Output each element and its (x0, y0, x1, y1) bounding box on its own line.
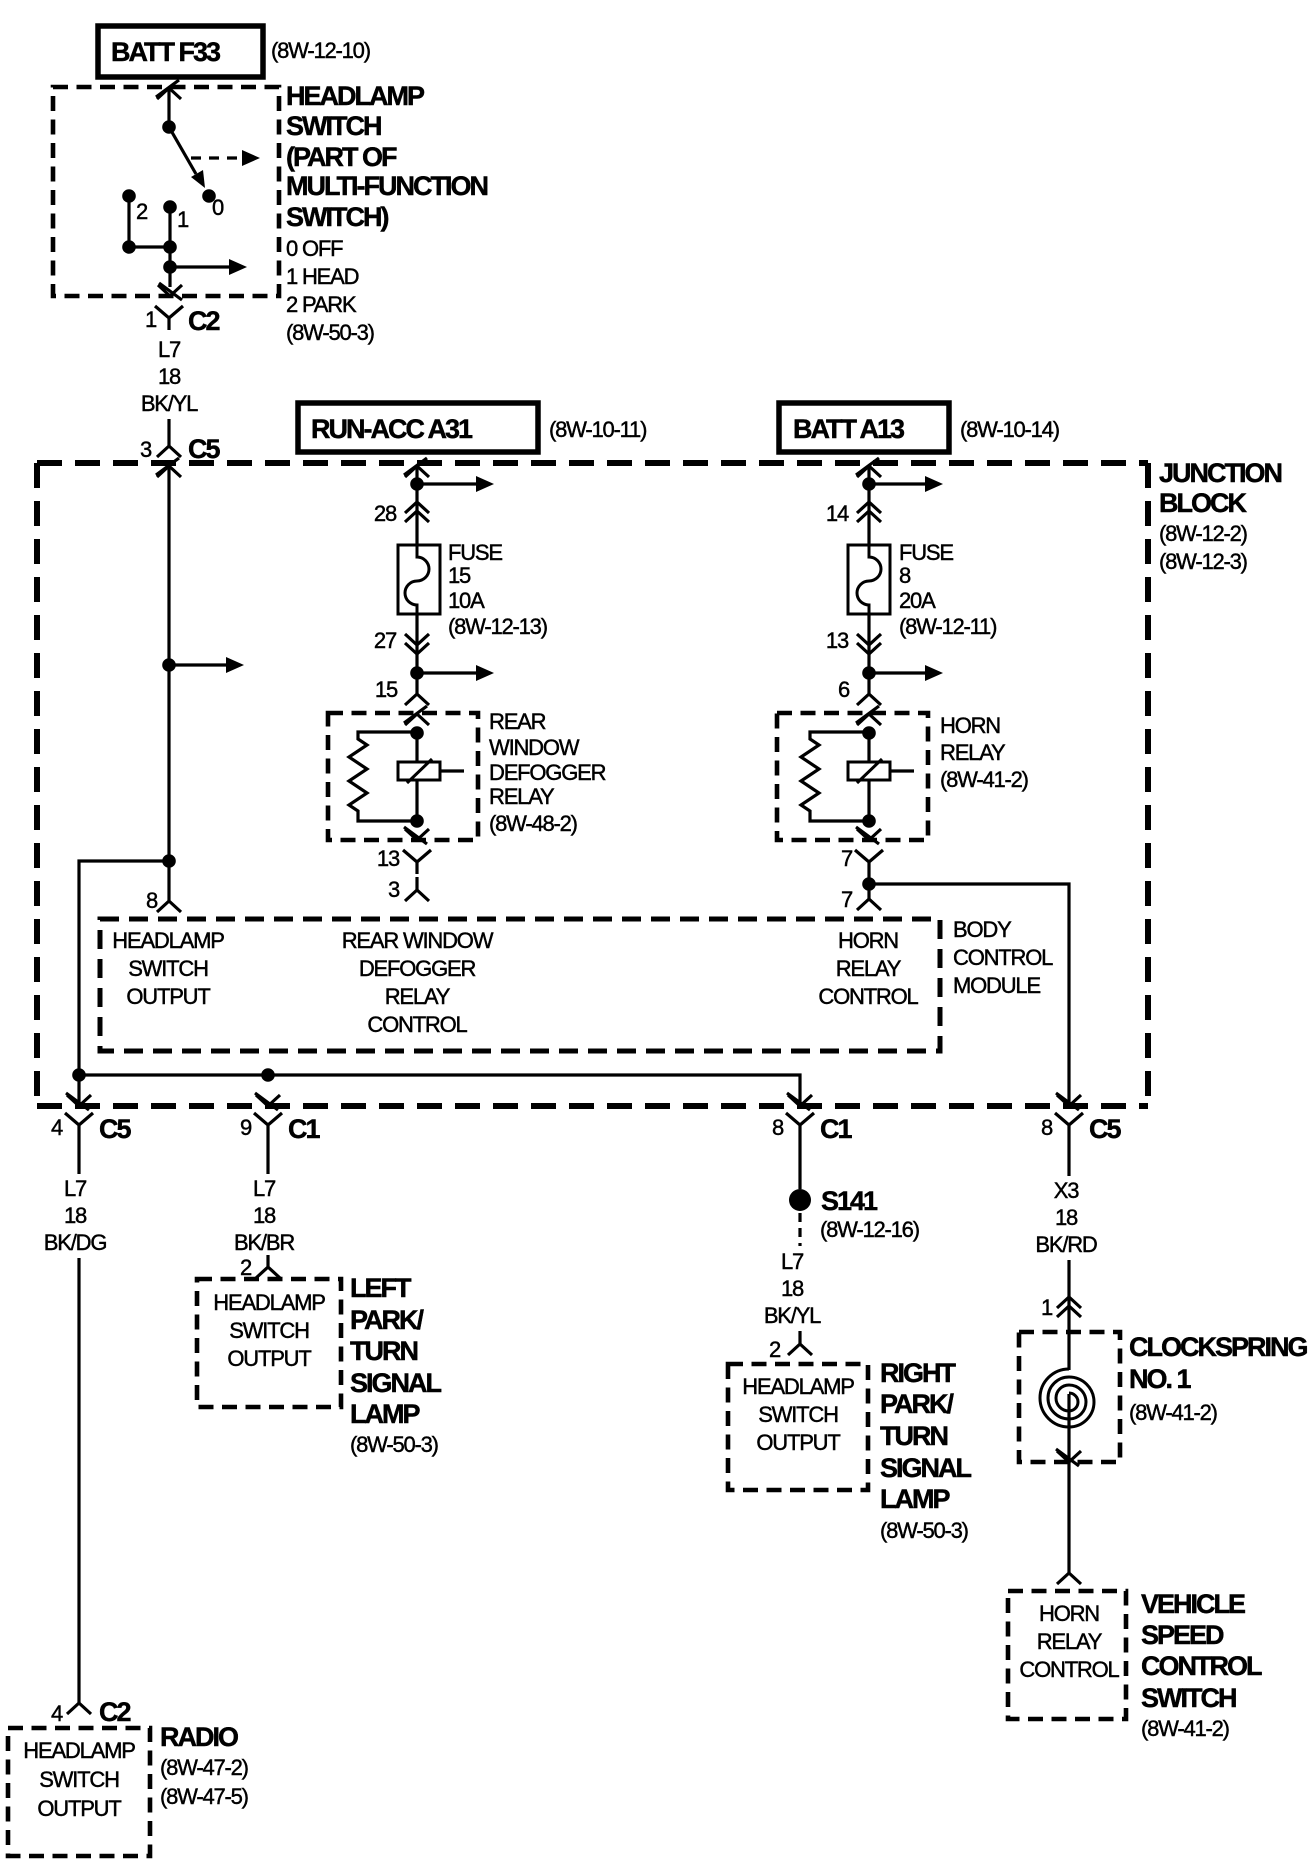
svg-text:(8W-41-2): (8W-41-2) (1141, 1716, 1229, 1741)
down arrow exit C1 pin 8 (787, 1093, 812, 1110)
svg-text:VEHICLE: VEHICLE (1141, 1589, 1245, 1619)
svg-text:SWITCH: SWITCH (1141, 1683, 1236, 1713)
svg-text:15: 15 (375, 677, 398, 702)
feed box RUN-ACC A31 (298, 403, 538, 452)
down arrow at switch box bottom (158, 283, 182, 300)
svg-text:C5: C5 (99, 1114, 131, 1144)
fuse 8 element (857, 545, 881, 614)
svg-text:X3: X3 (1054, 1178, 1079, 1203)
wire fuse to horn relay (867, 614, 870, 683)
up arrow entering horn relay (856, 706, 881, 725)
down arrow exit C5 pin 4 (66, 1093, 91, 1110)
wire to junction block (167, 419, 170, 434)
svg-text:RELAY: RELAY (940, 740, 1006, 765)
fuse 15 element (405, 545, 429, 614)
switch output wire (168, 247, 171, 287)
svg-text:SWITCH: SWITCH (128, 956, 208, 981)
svg-text:C5: C5 (188, 434, 220, 464)
up arrow headlamp feed entering block (156, 458, 181, 477)
svg-text:0 OFF: 0 OFF (286, 236, 343, 261)
svg-text:OUTPUT: OUTPUT (227, 1346, 311, 1371)
svg-text:8: 8 (146, 888, 158, 913)
wires through horn contact (867, 733, 870, 821)
wire contact 1 down (168, 207, 171, 247)
contact 2 (122, 189, 136, 203)
clockspring dashed box (1019, 1332, 1120, 1462)
svg-text:3: 3 (388, 877, 400, 902)
svg-text:FUSE: FUSE (899, 540, 953, 565)
svg-text:SPEED: SPEED (1141, 1620, 1224, 1650)
relay coil resistor (349, 732, 417, 821)
branch wire to C5 pin 8 (869, 884, 1069, 1106)
svg-text:1: 1 (145, 307, 157, 332)
double chevron down pin 13 (857, 634, 881, 654)
svg-text:SWITCH: SWITCH (229, 1318, 309, 1343)
svg-text:MULTI-FUNCTION: MULTI-FUNCTION (286, 171, 487, 201)
svg-text:BATT F33: BATT F33 (111, 37, 221, 67)
svg-text:20A: 20A (899, 588, 936, 613)
svg-text:CONTROL: CONTROL (1019, 1657, 1119, 1682)
double chevron down pin 27 (405, 634, 429, 654)
svg-text:REAR: REAR (489, 709, 546, 734)
svg-text:DEFOGGER: DEFOGGER (489, 760, 606, 785)
wire below C5 pin 4 (77, 1137, 80, 1174)
svg-text:MODULE: MODULE (953, 973, 1040, 998)
svg-text:18: 18 (64, 1203, 87, 1228)
svg-text:WINDOW: WINDOW (489, 735, 580, 760)
bottom distribution bus wire (79, 1075, 800, 1106)
svg-text:S141: S141 (821, 1186, 878, 1216)
svg-text:C2: C2 (99, 1697, 130, 1727)
branch node with arrow (862, 666, 876, 680)
svg-text:SWITCH: SWITCH (758, 1402, 838, 1427)
relay contact diagonal (407, 759, 432, 783)
svg-text:2: 2 (240, 1255, 252, 1280)
svg-text:(8W-12-13): (8W-12-13) (448, 614, 547, 639)
horn relay top node (862, 726, 876, 740)
wire below C1 pin 9 (266, 1137, 269, 1174)
svg-text:18: 18 (781, 1276, 804, 1301)
svg-text:L7: L7 (64, 1176, 87, 1201)
svg-text:7: 7 (841, 846, 853, 871)
contact 1 (163, 200, 177, 214)
svg-text:JUNCTION: JUNCTION (1159, 458, 1282, 488)
vehicle speed control switch dashed box (1008, 1591, 1126, 1719)
switch common node (162, 120, 176, 134)
svg-text:CLOCKSPRING: CLOCKSPRING (1129, 1332, 1308, 1362)
svg-text:OUTPUT: OUTPUT (126, 984, 210, 1009)
svg-text:C5: C5 (1089, 1114, 1121, 1144)
svg-text:28: 28 (374, 501, 397, 526)
svg-text:15: 15 (448, 563, 471, 588)
relay top node (410, 726, 424, 740)
svg-text:L7: L7 (781, 1249, 804, 1274)
long wire to radio (77, 1258, 80, 1690)
wire below C5 pin 8 (1067, 1137, 1070, 1176)
feed box BATT A13 (779, 403, 949, 452)
svg-text:4: 4 (51, 1115, 63, 1140)
svg-text:BK/YL: BK/YL (764, 1303, 821, 1328)
svg-text:CONTROL: CONTROL (367, 1012, 467, 1037)
svg-text:OUTPUT: OUTPUT (37, 1796, 121, 1821)
svg-text:1 HEAD: 1 HEAD (286, 264, 359, 289)
wires through contact (415, 733, 418, 821)
svg-text:BODY: BODY (953, 917, 1012, 942)
horn relay contact box (848, 762, 890, 780)
horn relay bottom node (862, 814, 876, 828)
down arrow leaving horn relay (856, 827, 881, 844)
svg-text:(8W-50-3): (8W-50-3) (286, 320, 374, 345)
up arrow batt feed entering block (856, 458, 881, 477)
svg-text:HEADLAMP: HEADLAMP (286, 81, 425, 111)
svg-text:9: 9 (240, 1115, 252, 1140)
svg-text:OUTPUT: OUTPUT (756, 1430, 840, 1455)
svg-text:2 PARK: 2 PARK (286, 292, 357, 317)
svg-text:18: 18 (158, 364, 181, 389)
svg-text:18: 18 (1055, 1205, 1078, 1230)
svg-text:BK/BR: BK/BR (234, 1230, 294, 1255)
svg-text:8: 8 (899, 563, 911, 588)
svg-text:SIGNAL: SIGNAL (350, 1368, 442, 1398)
contact junction node (122, 240, 136, 254)
svg-text:14: 14 (826, 501, 849, 526)
svg-text:13: 13 (377, 846, 400, 871)
svg-text:HORN: HORN (1039, 1601, 1099, 1626)
svg-text:RIGHT: RIGHT (880, 1358, 957, 1388)
junction block bottom border (37, 1103, 1148, 1109)
switch blade (169, 127, 196, 174)
junction block left border (34, 463, 40, 1106)
down arrow leaving relay (404, 827, 429, 844)
svg-text:BLOCK: BLOCK (1159, 488, 1247, 518)
svg-text:TURN: TURN (350, 1336, 417, 1366)
svg-text:2: 2 (769, 1337, 781, 1362)
splice dashed wire (798, 1213, 801, 1246)
svg-text:4: 4 (51, 1701, 63, 1726)
svg-text:(8W-50-3): (8W-50-3) (350, 1432, 438, 1457)
svg-text:2: 2 (136, 199, 148, 224)
right park/turn signal lamp dashed box (728, 1364, 868, 1490)
svg-text:7: 7 (841, 887, 853, 912)
horn relay coil resistor (801, 732, 869, 821)
svg-text:FUSE: FUSE (448, 540, 502, 565)
svg-text:(PART OF: (PART OF (286, 142, 397, 172)
wire from feed to switch common (167, 89, 170, 121)
branch node with arrow (410, 477, 424, 491)
double chevron up pin 14 (857, 502, 881, 522)
svg-text:BATT A13: BATT A13 (793, 414, 905, 444)
relay contact stub (440, 769, 464, 772)
svg-text:C1: C1 (820, 1114, 852, 1144)
down arrow exit C1 pin 9 (255, 1093, 280, 1110)
clockspring coil spiral (1040, 1369, 1094, 1427)
svg-text:REAR WINDOW: REAR WINDOW (342, 928, 494, 953)
double chevron up pin 28 (405, 502, 429, 522)
svg-text:(8W-50-3): (8W-50-3) (880, 1518, 968, 1543)
vehicle speed control switch input connector (1057, 1560, 1081, 1584)
svg-text:C1: C1 (288, 1114, 320, 1144)
svg-text:BK/DG: BK/DG (44, 1230, 107, 1255)
svg-text:(8W-12-10): (8W-12-10) (271, 38, 370, 63)
svg-text:RELAY: RELAY (385, 984, 451, 1009)
svg-text:SWITCH): SWITCH) (286, 202, 388, 232)
svg-text:NO. 1: NO. 1 (1129, 1364, 1192, 1394)
svg-text:SIGNAL: SIGNAL (880, 1453, 972, 1483)
svg-text:RELAY: RELAY (489, 784, 555, 809)
svg-text:PARK/: PARK/ (880, 1389, 955, 1419)
output branch node (163, 260, 177, 274)
svg-text:LAMP: LAMP (350, 1399, 420, 1429)
splice S141 (789, 1189, 811, 1211)
headlamp switch output wire in block (167, 467, 170, 861)
svg-text:(8W-41-2): (8W-41-2) (940, 767, 1028, 792)
svg-text:(8W-10-11): (8W-10-11) (549, 417, 646, 442)
svg-text:RADIO: RADIO (160, 1722, 238, 1752)
headlamp switch dashed box (53, 87, 279, 296)
svg-text:HEADLAMP: HEADLAMP (112, 928, 224, 953)
svg-text:8: 8 (1041, 1115, 1053, 1140)
svg-text:TURN: TURN (880, 1421, 947, 1451)
junction block top border (37, 460, 1148, 466)
svg-text:BK/YL: BK/YL (141, 391, 198, 416)
svg-text:CONTROL: CONTROL (818, 984, 918, 1009)
svg-text:HORN: HORN (838, 928, 898, 953)
wire to horn control node (867, 875, 870, 884)
svg-text:L7: L7 (158, 337, 181, 362)
svg-text:HEADLAMP: HEADLAMP (742, 1374, 854, 1399)
wire fuse to relay (415, 614, 418, 683)
svg-text:18: 18 (253, 1203, 276, 1228)
horn relay contact stub (890, 769, 914, 772)
svg-text:(8W-10-14): (8W-10-14) (960, 417, 1059, 442)
body control module dashed box (100, 919, 940, 1051)
svg-text:(8W-47-5): (8W-47-5) (160, 1784, 248, 1809)
svg-text:LAMP: LAMP (880, 1484, 950, 1514)
svg-text:13: 13 (826, 628, 849, 653)
junction block right border (1145, 463, 1151, 1106)
svg-text:CONTROL: CONTROL (1141, 1651, 1262, 1681)
svg-text:1: 1 (1041, 1295, 1053, 1320)
svg-text:C2: C2 (188, 306, 219, 336)
down arrow exit C5 pin 8 (1056, 1093, 1081, 1110)
batt feed wire (867, 467, 870, 545)
contact 0 (202, 189, 216, 203)
relay contact box (398, 762, 440, 780)
down arrow at clockspring box bottom (1056, 1449, 1081, 1466)
svg-text:6: 6 (838, 677, 850, 702)
branch arrow right (170, 265, 229, 268)
svg-text:RELAY: RELAY (836, 956, 902, 981)
svg-text:RUN-ACC A31: RUN-ACC A31 (311, 414, 473, 444)
up arrow entering relay (404, 706, 429, 725)
svg-text:LEFT: LEFT (350, 1273, 412, 1303)
fuse 15 body (398, 545, 440, 614)
horn control branch node (862, 877, 876, 891)
left park/turn signal lamp dashed box (197, 1279, 341, 1407)
svg-text:CONTROL: CONTROL (953, 945, 1053, 970)
wire contact 2 down (127, 196, 130, 247)
svg-text:SWITCH: SWITCH (39, 1767, 119, 1792)
relay bottom node (410, 814, 424, 828)
horn relay contact diagonal (857, 759, 882, 783)
svg-text:(8W-12-11): (8W-12-11) (899, 614, 996, 639)
svg-text:(8W-41-2): (8W-41-2) (1129, 1400, 1217, 1425)
bus node at 9 C1 (261, 1068, 275, 1082)
svg-text:PARK/: PARK/ (350, 1305, 425, 1335)
svg-text:HORN: HORN (940, 713, 1000, 738)
svg-text:DEFOGGER: DEFOGGER (359, 956, 476, 981)
svg-text:10A: 10A (448, 588, 485, 613)
svg-text:3: 3 (140, 437, 152, 462)
svg-text:(8W-12-3): (8W-12-3) (1159, 549, 1247, 574)
branch node with arrow (862, 477, 876, 491)
svg-text:(8W-48-2): (8W-48-2) (489, 811, 577, 836)
node to BCM pin 8 and bus (162, 854, 176, 868)
branch node with arrow (410, 666, 424, 680)
branch node with arrow (162, 658, 176, 672)
radio dashed box (8, 1728, 150, 1856)
svg-text:L7: L7 (253, 1176, 276, 1201)
svg-text:RELAY: RELAY (1037, 1629, 1103, 1654)
svg-text:BK/RD: BK/RD (1035, 1232, 1097, 1257)
bus node left (72, 1068, 86, 1082)
svg-text:0: 0 (212, 195, 224, 220)
svg-text:(8W-12-2): (8W-12-2) (1159, 521, 1247, 546)
power feed box BATT F33 (98, 26, 263, 77)
svg-text:(8W-12-16): (8W-12-16) (820, 1217, 919, 1242)
rear window defogger relay dashed box (328, 713, 478, 840)
svg-text:HEADLAMP: HEADLAMP (213, 1290, 325, 1315)
up arrow run-acc feed entering block (404, 458, 429, 477)
wire leaving clockspring (1067, 1394, 1070, 1560)
blade motion dashed arrow (191, 156, 242, 159)
wire to clockspring (1067, 1260, 1070, 1370)
run-acc feed wire (415, 467, 418, 545)
horn relay dashed box (777, 713, 928, 840)
wire below C1 pin 8 (798, 1137, 801, 1189)
svg-text:8: 8 (772, 1115, 784, 1140)
BCM pin 8 input connector (157, 861, 181, 912)
svg-text:SWITCH: SWITCH (286, 111, 381, 141)
svg-text:1: 1 (177, 207, 189, 232)
fuse 8 body (848, 545, 890, 614)
up arrow at switch box top (156, 80, 181, 99)
svg-text:27: 27 (374, 628, 397, 653)
svg-text:(8W-47-2): (8W-47-2) (160, 1755, 248, 1780)
svg-text:HEADLAMP: HEADLAMP (23, 1738, 135, 1763)
wire left and down to bus (79, 861, 169, 1106)
